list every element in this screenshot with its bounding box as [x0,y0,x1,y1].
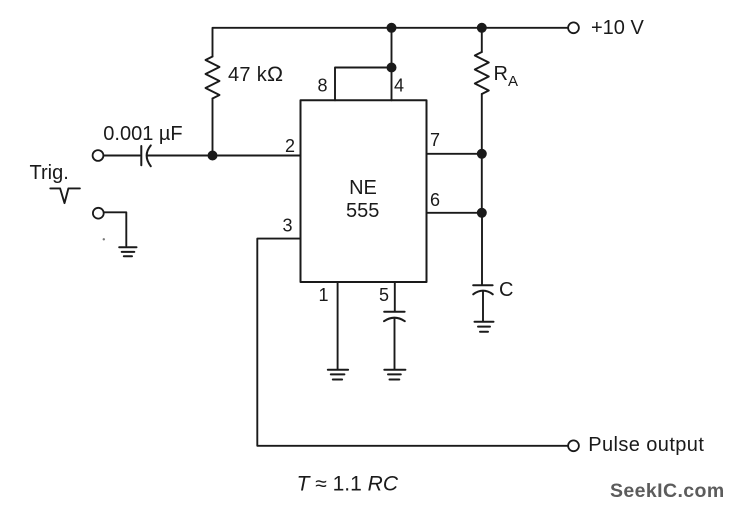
wire RA to pin 7 node [481,94,483,154]
wire lower input terminal to ground [104,212,127,246]
speck artifact [103,238,105,240]
junction node pin 7 [477,149,487,159]
svg-text:7: 7 [430,130,440,150]
capacitor C2 top plate [384,311,404,313]
wire pin 7 [427,153,482,155]
terminal input upper [93,150,104,161]
junction node rail/RA [477,23,487,33]
resistor RA [475,52,489,94]
resistor R1 47 kOhm [206,57,220,99]
svg-text:Pulse output: Pulse output [588,434,704,456]
ground (input) [119,247,136,256]
svg-text:6: 6 [430,190,440,210]
svg-text:NE: NE [349,177,377,199]
wire pin 1 to ground [337,282,339,369]
capacitor C1 left plate [140,146,142,165]
capacitor C1 right curved plate [147,145,151,166]
svg-text:Trig.: Trig. [30,162,69,184]
svg-text:3: 3 [283,216,293,236]
svg-text:47 kΩ: 47 kΩ [228,62,283,86]
wire +10V supply rail [213,28,569,57]
wire capacitor to node A [147,155,212,157]
terminal input lower [93,208,104,219]
wire pin 6 [427,212,482,214]
wire pin 3 to pulse output [257,239,568,446]
wire pin6 node to capacitor C [481,213,483,285]
wire capacitor C2 to ground [394,318,396,369]
wire pin 5 to capacitor [394,282,396,312]
wire rail to pin4 bracket [391,28,393,68]
junction node A (trigger input) [208,151,218,161]
svg-text:+10 V: +10 V [591,17,644,39]
capacitor C2 curved plate [384,318,405,322]
svg-text:SeekIC.com: SeekIC.com [610,480,725,502]
svg-text:0.001 µF: 0.001 µF [103,123,182,145]
ground (capacitor C) [475,322,494,332]
junction node pin 6 [477,208,487,218]
wire resistor to node A [212,99,214,156]
wire node A to pin 2 [213,155,301,157]
wire capacitor C to ground [482,291,484,322]
svg-text:4: 4 [394,76,404,96]
ground (pin 5) [384,370,405,380]
capacitor C curved plate [473,291,493,295]
svg-text:C: C [499,279,513,301]
trigger pulse waveform [50,188,80,203]
svg-text:T ≈ 1.1 RC: T ≈ 1.1 RC [297,473,399,496]
wire pin 4 [391,68,393,101]
svg-text:5: 5 [379,285,389,305]
ground (pin 1) [328,370,348,380]
IC U1 NE555 box [301,100,427,282]
svg-text:RA: RA [494,63,518,90]
terminal +10 V [568,22,579,33]
wire rail to resistor RA [481,28,483,52]
svg-text:2: 2 [285,136,295,156]
junction node pins 8-4 [387,63,397,73]
wire pin7 node to pin6 node [481,154,483,213]
svg-text:1: 1 [319,285,329,305]
capacitor C top plate [473,284,492,286]
svg-text:555: 555 [346,200,379,222]
terminal pulse output [568,440,579,451]
wire input terminal to capacitor [103,155,139,157]
wire pin 8 [335,68,392,101]
junction node rail/pin4 [387,23,397,33]
svg-text:8: 8 [318,76,328,96]
